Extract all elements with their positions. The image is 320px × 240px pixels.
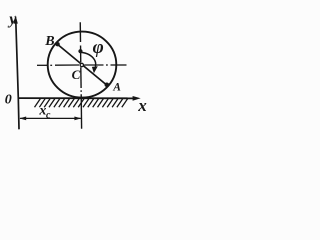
svg-text:φ: φ xyxy=(93,37,104,58)
svg-text:x: x xyxy=(137,96,147,115)
dimension line x_c: shaft xyxy=(20,117,81,119)
angle arc arrowhead xyxy=(92,66,98,73)
vertical centerline (dash-dot) through C xyxy=(80,22,81,129)
svg-text:A: A xyxy=(112,82,121,94)
dot on vertical radius xyxy=(78,49,82,53)
dimension line x_c: right arrowhead xyxy=(74,117,81,121)
svg-text:0: 0 xyxy=(5,93,12,108)
diameter line B-A xyxy=(56,43,108,86)
svg-text:c: c xyxy=(46,110,51,121)
point A (dot) xyxy=(105,83,110,88)
center C (open ring) xyxy=(80,63,83,66)
svg-text:y: y xyxy=(7,11,17,28)
ground hatching xyxy=(35,99,128,108)
y-axis line xyxy=(16,21,19,129)
angle arc phi xyxy=(81,52,96,66)
circle (wheel/disk) xyxy=(48,32,117,98)
dimension line x_c: left arrowhead xyxy=(19,117,26,121)
x-axis arrowhead xyxy=(133,96,141,101)
svg-text:C: C xyxy=(72,67,81,82)
svg-text:B: B xyxy=(44,34,54,49)
point B (dot) xyxy=(55,42,59,46)
x-axis (ground line) xyxy=(18,97,134,99)
horizontal centerline (dash-dot) through C xyxy=(37,64,127,66)
y-axis arrowhead xyxy=(13,15,17,23)
